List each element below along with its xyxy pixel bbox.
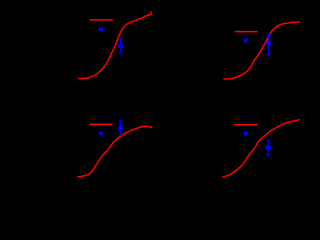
- curve fit (bottom-right): [223, 120, 300, 177]
- error bar top-right: threshold square marker: [266, 42, 270, 46]
- legend line sample (bottom-right): [234, 124, 258, 126]
- legend line sample (top-right): [235, 31, 258, 33]
- error bar top-right: bottom cap: [267, 54, 271, 56]
- error bar bottom-right: top cap: [266, 140, 270, 142]
- legend marker (top-right, square): [244, 39, 248, 43]
- curve fit (top-right): [224, 22, 300, 79]
- legend line sample (top-left): [90, 19, 113, 21]
- curve fit (top-left): [79, 14, 152, 79]
- panel bottom-right: psychometric curve fit: [223, 120, 300, 177]
- error bar top-left: bottom cap: [119, 52, 123, 54]
- curve end data dot (bottom-left panel): [150, 127, 152, 129]
- error bar bottom-left: bottom cap: [119, 134, 123, 136]
- legend marker (bottom-right, square): [244, 132, 248, 135]
- error bar top-left: top cap: [119, 38, 123, 40]
- error bar bottom-left: threshold square marker: [118, 126, 122, 130]
- error bar bottom-right: threshold square marker: [266, 145, 271, 149]
- curve fit (bottom-left): [78, 126, 152, 176]
- error bar bottom-right: vertical line: [267, 141, 269, 155]
- curve end data dot (top-left panel): [150, 12, 152, 13]
- panel top-left: psychometric curve fit: [79, 14, 152, 79]
- error bar top-right: vertical line: [268, 35, 270, 55]
- error bar top-left: vertical line: [120, 39, 122, 53]
- legend marker (bottom-left, square): [99, 132, 103, 135]
- panel bottom-left: psychometric curve fit: [78, 124, 152, 177]
- error bar top-right: top cap: [267, 34, 271, 36]
- error bar bottom-left: top cap: [119, 119, 123, 121]
- legend line sample (bottom-left): [90, 123, 113, 125]
- error bar top-left: threshold square marker: [118, 44, 122, 48]
- error bar bottom-left: vertical line: [119, 120, 121, 135]
- panel top-right: psychometric curve fit: [224, 22, 300, 79]
- legend marker (top-left, notched square): [99, 27, 103, 31]
- error bar bottom-right: bottom cap: [266, 154, 270, 156]
